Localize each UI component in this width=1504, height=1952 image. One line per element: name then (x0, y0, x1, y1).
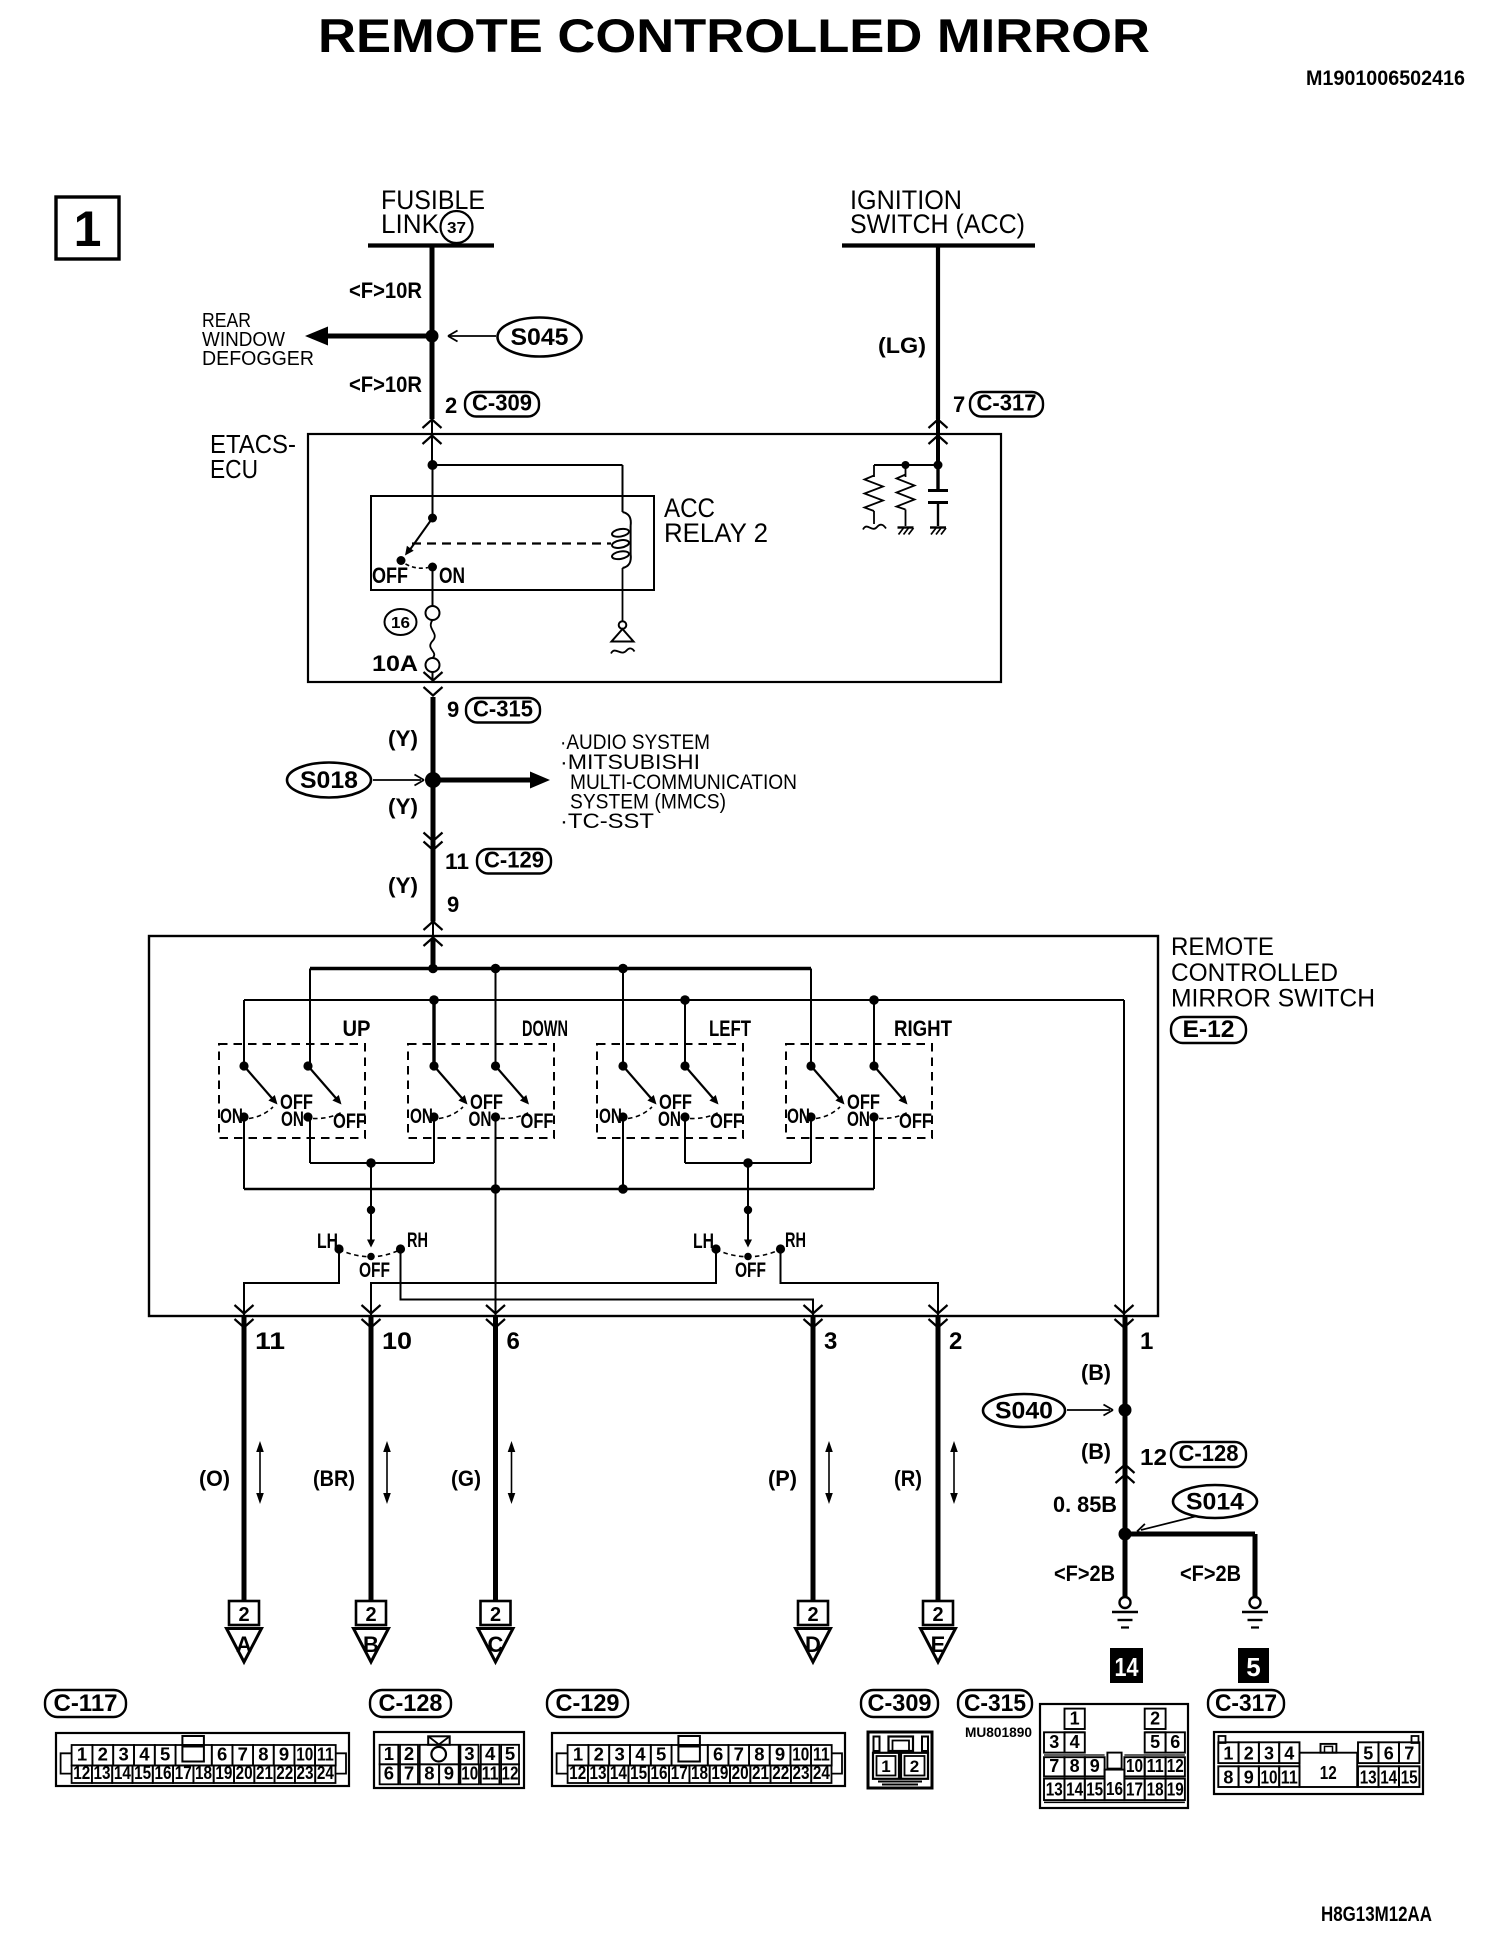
arrow updown D (825, 1441, 833, 1504)
label <F>10R upper (349, 278, 422, 303)
connector C-315 inline label (466, 696, 540, 723)
connector crossing E-12 entry (424, 922, 443, 947)
svg-text:13: 13 (1360, 1768, 1377, 1788)
switch LEFT pole 2 (658, 1061, 743, 1133)
svg-text:OFF: OFF (359, 1259, 390, 1282)
svg-text:C-129: C-129 (484, 847, 544, 873)
remote controlled mirror switch box (149, 936, 1158, 1316)
svg-text:18: 18 (195, 1762, 212, 1783)
terminal B (354, 1601, 389, 1662)
svg-text:OFF: OFF (521, 1110, 554, 1133)
ground 14 (1112, 1597, 1138, 1628)
svg-text:C-309: C-309 (868, 1690, 932, 1717)
svg-text:11: 11 (1281, 1768, 1298, 1788)
splice S018 (287, 763, 424, 798)
svg-text:22: 22 (276, 1762, 293, 1783)
svg-text:DOWN: DOWN (522, 1016, 568, 1041)
svg-text:4: 4 (1284, 1744, 1294, 1764)
label RH 1 (407, 1229, 428, 1252)
pin 3 label (824, 1328, 837, 1355)
svg-text:12: 12 (1167, 1756, 1184, 1776)
wire up pole2 feed (309, 969, 311, 1067)
svg-text:2: 2 (404, 1743, 414, 1764)
svg-text:C-309: C-309 (472, 390, 532, 416)
svg-text:8: 8 (1223, 1768, 1233, 1788)
svg-text:1: 1 (384, 1743, 394, 1764)
svg-text:C-117: C-117 (54, 1690, 118, 1717)
svg-text:15: 15 (1401, 1768, 1418, 1788)
acc relay 2 coil (611, 465, 630, 568)
svg-text:9: 9 (1090, 1756, 1100, 1776)
switch UP pole 1 (220, 1061, 313, 1128)
svg-text:10: 10 (1261, 1768, 1278, 1788)
svg-text:2: 2 (932, 1604, 943, 1626)
svg-text:C-128: C-128 (1179, 1440, 1239, 1466)
ground point 14 (1110, 1648, 1143, 1683)
connector C-317 inline label (970, 390, 1043, 417)
svg-text:C-315: C-315 (473, 696, 533, 722)
svg-text:(Y): (Y) (388, 794, 418, 819)
label (Y) 1 (388, 726, 418, 751)
relay contact OFF (397, 556, 406, 565)
switch DOWN dashed box (408, 1044, 554, 1138)
svg-text:19: 19 (1167, 1780, 1184, 1800)
wire terminal E (thick) (936, 1316, 941, 1601)
wire ACC supply (thick) (431, 697, 436, 922)
svg-text:6: 6 (384, 1762, 394, 1783)
node u-link 2 (743, 1158, 753, 1168)
svg-text:RELAY 2: RELAY 2 (664, 518, 768, 548)
svg-text:17: 17 (175, 1762, 192, 1783)
splice S040 (983, 1394, 1113, 1427)
svg-text:C-317: C-317 (977, 390, 1037, 416)
label (B) 1 (1081, 1360, 1111, 1385)
svg-text:1: 1 (1223, 1744, 1233, 1764)
svg-text:13: 13 (590, 1762, 607, 1783)
svg-text:(R): (R) (894, 1466, 922, 1491)
svg-text:2: 2 (238, 1604, 249, 1626)
svg-text:6: 6 (507, 1328, 520, 1355)
ignition switch label (850, 185, 1025, 239)
wire down pole1 feed (thick) (432, 1000, 435, 1066)
svg-text:2: 2 (910, 1757, 919, 1776)
connector crossing E-12 pin 3 (804, 1305, 823, 1328)
svg-text:7: 7 (1049, 1756, 1059, 1776)
node u-link 1 (366, 1158, 376, 1168)
connector crossing E-12 pin 10 (362, 1305, 381, 1328)
svg-text:12: 12 (502, 1762, 519, 1783)
connector C-317 pinout (1214, 1732, 1423, 1794)
wire right pole2 feed (873, 1000, 875, 1066)
label (B) 2 (1081, 1439, 1111, 1464)
svg-text:7: 7 (404, 1762, 414, 1783)
label (Y) 3 (388, 873, 418, 898)
svg-text:(O): (O) (199, 1466, 230, 1491)
pin 2 label (949, 1328, 962, 1355)
wire up pole2 drop (309, 1117, 311, 1163)
label <F>2B right (1180, 1561, 1241, 1586)
node left pole1 common rail (618, 1184, 628, 1194)
svg-text:4: 4 (1070, 1732, 1080, 1752)
svg-text:18: 18 (691, 1762, 708, 1783)
label ON relay (439, 563, 465, 588)
relay switch dashed travel (406, 564, 429, 568)
svg-text:10: 10 (1126, 1756, 1143, 1776)
arrow updown B (383, 1441, 391, 1504)
wire terminal B (thick) (369, 1316, 374, 1601)
svg-text:(Y): (Y) (388, 726, 418, 751)
node S018 junction (425, 772, 441, 788)
connector C-315 pinout (1040, 1704, 1188, 1808)
node rail1 supply (428, 964, 438, 974)
wire right pole2 drop (873, 1117, 875, 1189)
svg-text:2: 2 (949, 1328, 962, 1355)
wire right pole1 feed (810, 969, 812, 1067)
svg-text:LH: LH (317, 1230, 338, 1253)
svg-text:2: 2 (1150, 1709, 1160, 1729)
svg-text:5: 5 (1150, 1732, 1160, 1752)
svg-text:2: 2 (490, 1604, 501, 1626)
svg-text:0. 85B: 0. 85B (1053, 1492, 1117, 1517)
svg-text:6: 6 (1384, 1744, 1394, 1764)
connector crossing C-309 (423, 419, 442, 464)
label RIGHT (894, 1016, 952, 1041)
node S045 junction (426, 330, 439, 343)
svg-text:REMOTE CONTROLLED MIRROR: REMOTE CONTROLLED MIRROR (318, 9, 1150, 62)
label <F>2B left (1054, 1561, 1115, 1586)
svg-text:14: 14 (1066, 1780, 1083, 1800)
connector C-117 pinout (56, 1733, 349, 1786)
label ETACS-ECU (210, 429, 296, 484)
arrow to rear window defogger (305, 327, 432, 346)
svg-text:1: 1 (1140, 1328, 1153, 1355)
node S014 junction (1119, 1528, 1132, 1541)
svg-text:UP: UP (343, 1016, 371, 1041)
svg-text:18: 18 (1147, 1780, 1164, 1800)
svg-text:S018: S018 (300, 767, 358, 794)
svg-text:13: 13 (94, 1762, 111, 1783)
svg-text:C: C (488, 1632, 504, 1657)
wire right pole1 drop (810, 1117, 812, 1163)
switch UP pole 2 (281, 1061, 366, 1133)
svg-text:LH: LH (693, 1230, 714, 1253)
svg-text:3: 3 (824, 1328, 837, 1355)
svg-text:16: 16 (391, 615, 410, 632)
wire selector1 LH to pin 11 (244, 1250, 339, 1316)
pin 12 label (1140, 1444, 1167, 1470)
pin 7 label (953, 392, 965, 417)
ground 5 (1242, 1597, 1268, 1628)
wire pin1 ground (thick) (1123, 1316, 1128, 1597)
connector crossing E-12 pin 6 (486, 1305, 505, 1328)
connector C-117 label (45, 1690, 126, 1717)
switch UP dashed box (219, 1044, 365, 1138)
fusible link bus bar (368, 243, 494, 247)
svg-text:11: 11 (482, 1762, 499, 1783)
page number box 1 (56, 197, 119, 259)
switch RIGHT pole 1 (787, 1061, 880, 1128)
svg-text:21: 21 (256, 1762, 273, 1783)
relay contact ON (428, 563, 437, 572)
svg-text:11: 11 (445, 849, 469, 874)
pin 1 label (1140, 1328, 1153, 1355)
svg-text:23: 23 (297, 1762, 314, 1783)
svg-text:14: 14 (1380, 1768, 1397, 1788)
connector C-128 inline label (1171, 1440, 1246, 1467)
common rail (pin6 net) (244, 1188, 874, 1190)
svg-text:19: 19 (711, 1762, 728, 1783)
connector crossing C-317 (929, 419, 948, 464)
svg-text:<F>10R: <F>10R (349, 372, 422, 397)
relay mechanical link dashed (412, 542, 611, 544)
svg-text:11: 11 (1147, 1756, 1164, 1776)
connector crossing E-12 pin 1 (1115, 1305, 1134, 1328)
relay switch common (428, 465, 437, 523)
svg-text:D: D (805, 1632, 821, 1657)
node rail2 right pole2 (869, 995, 879, 1005)
svg-text:<F>10R: <F>10R (349, 278, 422, 303)
svg-text:7: 7 (1404, 1744, 1414, 1764)
arrow to audio system (thick) (439, 772, 550, 789)
connector C-129 pinout (552, 1733, 845, 1786)
node rail1 down pole2 (491, 964, 501, 974)
terminal E (921, 1601, 956, 1662)
ETACS-ECU box (308, 434, 1001, 682)
pin 9 label switch (447, 892, 459, 917)
svg-text:10A: 10A (372, 651, 418, 676)
svg-text:SWITCH (ACC): SWITCH (ACC) (850, 209, 1025, 239)
label 10A (372, 651, 418, 676)
wire LG to network (874, 435, 943, 470)
svg-text:6: 6 (1170, 1732, 1180, 1752)
drawing number H8G13M12AA (1321, 1903, 1432, 1926)
svg-text:ON: ON (787, 1105, 810, 1128)
label (G) (451, 1466, 481, 1491)
u-link left-right (685, 1162, 811, 1164)
node rail1 left pole1 (618, 964, 628, 974)
svg-text:·TC-SST: ·TC-SST (560, 809, 654, 833)
arrow updown C (508, 1441, 516, 1504)
ground rail 2 (244, 999, 1124, 1001)
switch RIGHT pole 2 (847, 1061, 932, 1133)
svg-text:16: 16 (650, 1762, 667, 1783)
svg-text:3: 3 (1049, 1732, 1059, 1752)
capacitor C1 (928, 465, 948, 535)
connector crossing C-315 (424, 672, 443, 696)
pin 2 label (445, 393, 457, 418)
svg-text:C-128: C-128 (379, 1690, 443, 1717)
wire down pole2 to pin6 (495, 1117, 497, 1316)
svg-text:16: 16 (154, 1762, 171, 1783)
svg-text:23: 23 (793, 1762, 810, 1783)
svg-text:ON: ON (658, 1108, 681, 1131)
svg-text:7: 7 (953, 392, 965, 417)
pin 9 label C-315 (447, 697, 459, 722)
svg-text:9: 9 (444, 1762, 454, 1783)
document number M1901006502416 (1306, 67, 1465, 90)
svg-text:H8G13M12AA: H8G13M12AA (1321, 1903, 1432, 1926)
connector crossing E-12 pin 2 (929, 1305, 948, 1328)
svg-text:OFF: OFF (735, 1259, 766, 1282)
svg-text:14: 14 (1115, 1652, 1139, 1682)
svg-text:5: 5 (505, 1743, 515, 1764)
label (Y) 2 (388, 794, 418, 819)
svg-text:DEFOGGER: DEFOGGER (202, 348, 314, 370)
label LH 1 (317, 1230, 338, 1253)
svg-text:9: 9 (1244, 1768, 1254, 1788)
wire terminal D (thick) (811, 1316, 816, 1601)
label fuse number 16 (385, 609, 417, 635)
connector C-128 pinout (374, 1732, 524, 1788)
svg-text:15: 15 (630, 1762, 647, 1783)
svg-text:10: 10 (382, 1328, 412, 1355)
wire terminal C (thick) (493, 1316, 498, 1601)
connector C-309 pinout (868, 1732, 932, 1788)
wire relay feed (428, 434, 623, 470)
svg-text:24: 24 (317, 1762, 335, 1783)
svg-text:19: 19 (215, 1762, 232, 1783)
svg-text:15: 15 (1086, 1780, 1103, 1800)
connector C-128 label (370, 1690, 451, 1717)
label RH 2 (785, 1229, 806, 1252)
svg-text:2: 2 (365, 1604, 376, 1626)
svg-text:RIGHT: RIGHT (894, 1016, 952, 1041)
svg-text:B: B (363, 1632, 379, 1657)
svg-text:RH: RH (785, 1229, 806, 1252)
connector crossing C-128 (1116, 1465, 1135, 1484)
switch LEFT dashed box (597, 1044, 743, 1138)
label (BR) (313, 1466, 355, 1491)
svg-text:REMOTE: REMOTE (1171, 933, 1274, 961)
wire left pole1 feed (622, 969, 624, 1067)
svg-text:E: E (931, 1632, 946, 1657)
svg-text:22: 22 (772, 1762, 789, 1783)
wire down pole2 feed (495, 969, 497, 1067)
svg-text:LEFT: LEFT (709, 1016, 751, 1041)
svg-text:(LG): (LG) (878, 333, 926, 358)
switch LEFT pole 1 (599, 1061, 692, 1128)
connector C-317 label (1208, 1690, 1284, 1717)
svg-text:20: 20 (732, 1762, 749, 1783)
arrow updown A (256, 1441, 264, 1504)
svg-text:9: 9 (447, 697, 459, 722)
connector C-129 inline label (477, 847, 551, 874)
wire selector1 RH to pin 3 (401, 1250, 814, 1316)
label (R) (894, 1466, 922, 1491)
svg-text:ON: ON (410, 1105, 433, 1128)
label audio system list (560, 730, 797, 833)
svg-text:12: 12 (569, 1762, 586, 1783)
svg-text:5: 5 (1363, 1744, 1373, 1764)
svg-text:14: 14 (610, 1762, 628, 1783)
svg-text:4: 4 (485, 1743, 496, 1764)
u-link up-down (310, 1162, 434, 1164)
svg-text:LINK: LINK (381, 209, 439, 239)
svg-text:12: 12 (1320, 1763, 1337, 1783)
svg-text:20: 20 (236, 1762, 253, 1783)
connector crossing E-12 pin 11 (235, 1305, 254, 1328)
svg-text:S040: S040 (995, 1398, 1053, 1425)
svg-text:(B): (B) (1081, 1439, 1111, 1464)
svg-text:14: 14 (114, 1762, 132, 1783)
svg-text:C-317: C-317 (1215, 1690, 1277, 1717)
switch DOWN pole 2 (469, 1061, 554, 1133)
connector C-129 label (547, 1690, 628, 1717)
fuse 16 10A (426, 571, 440, 682)
svg-text:<F>2B: <F>2B (1054, 1561, 1115, 1586)
svg-text:ON: ON (220, 1105, 243, 1128)
svg-text:1: 1 (74, 201, 102, 257)
selector LH/RH leftright (711, 1163, 785, 1260)
label ACC RELAY 2 (664, 493, 768, 548)
svg-text:(G): (G) (451, 1466, 481, 1491)
svg-text:ON: ON (599, 1105, 622, 1128)
label OFF relay (372, 563, 408, 588)
relay coil ground (611, 568, 635, 654)
label REAR WINDOW DEFOGGER (202, 310, 314, 370)
terminal A (227, 1601, 262, 1662)
svg-text:2: 2 (807, 1604, 818, 1626)
label remote controlled mirror switch (1171, 933, 1375, 1013)
relay switch arm (405, 518, 433, 556)
wire fusible link feed (thick) (430, 247, 435, 332)
svg-text:15: 15 (134, 1762, 151, 1783)
terminal C (478, 1601, 513, 1662)
svg-text:C-129: C-129 (556, 1690, 620, 1717)
wire left pole1 drop (622, 1117, 624, 1189)
label (LG) (878, 333, 926, 358)
ground point 5 (1238, 1648, 1269, 1683)
label LEFT (709, 1016, 751, 1041)
label LH 2 (693, 1230, 714, 1253)
label OFF selector 2 (735, 1259, 766, 1282)
splice S045 (448, 318, 582, 357)
svg-text:8: 8 (424, 1762, 434, 1783)
svg-text:(P): (P) (768, 1466, 797, 1491)
arrow updown E (950, 1441, 958, 1504)
label 0.85B (1053, 1492, 1117, 1517)
fusible link 37 label (381, 185, 485, 243)
wire left pole2 feed (684, 1000, 686, 1066)
svg-text:S045: S045 (511, 324, 569, 351)
svg-text:11: 11 (255, 1328, 285, 1355)
label MU801890 (965, 1724, 1032, 1740)
label <F>10R lower (349, 372, 422, 397)
svg-text:16: 16 (1106, 1779, 1123, 1799)
svg-text:ON: ON (439, 563, 465, 588)
svg-text:MIRROR SWITCH: MIRROR SWITCH (1171, 985, 1375, 1013)
svg-text:1: 1 (1070, 1709, 1080, 1729)
selector LH/RH updown (334, 1163, 405, 1260)
svg-text:1: 1 (881, 1757, 890, 1776)
svg-text:ON: ON (281, 1108, 304, 1131)
wire left pole2 drop (684, 1117, 686, 1163)
node S040 junction (1119, 1404, 1132, 1417)
svg-text:8: 8 (1070, 1756, 1080, 1776)
svg-text:(BR): (BR) (313, 1466, 355, 1491)
svg-text:OFF: OFF (710, 1110, 743, 1133)
wire selector2 LH to pin 10 (371, 1250, 716, 1316)
svg-text:5: 5 (1246, 1652, 1260, 1682)
resistor R2 (897, 465, 915, 535)
svg-text:OFF: OFF (333, 1110, 366, 1133)
connector E-12 label (1171, 1016, 1246, 1043)
svg-text:9: 9 (447, 892, 459, 917)
svg-text:13: 13 (1046, 1780, 1063, 1800)
connector C-309 label (861, 1690, 938, 1717)
resistor R1 (863, 465, 886, 530)
svg-text:ECU: ECU (210, 454, 258, 484)
